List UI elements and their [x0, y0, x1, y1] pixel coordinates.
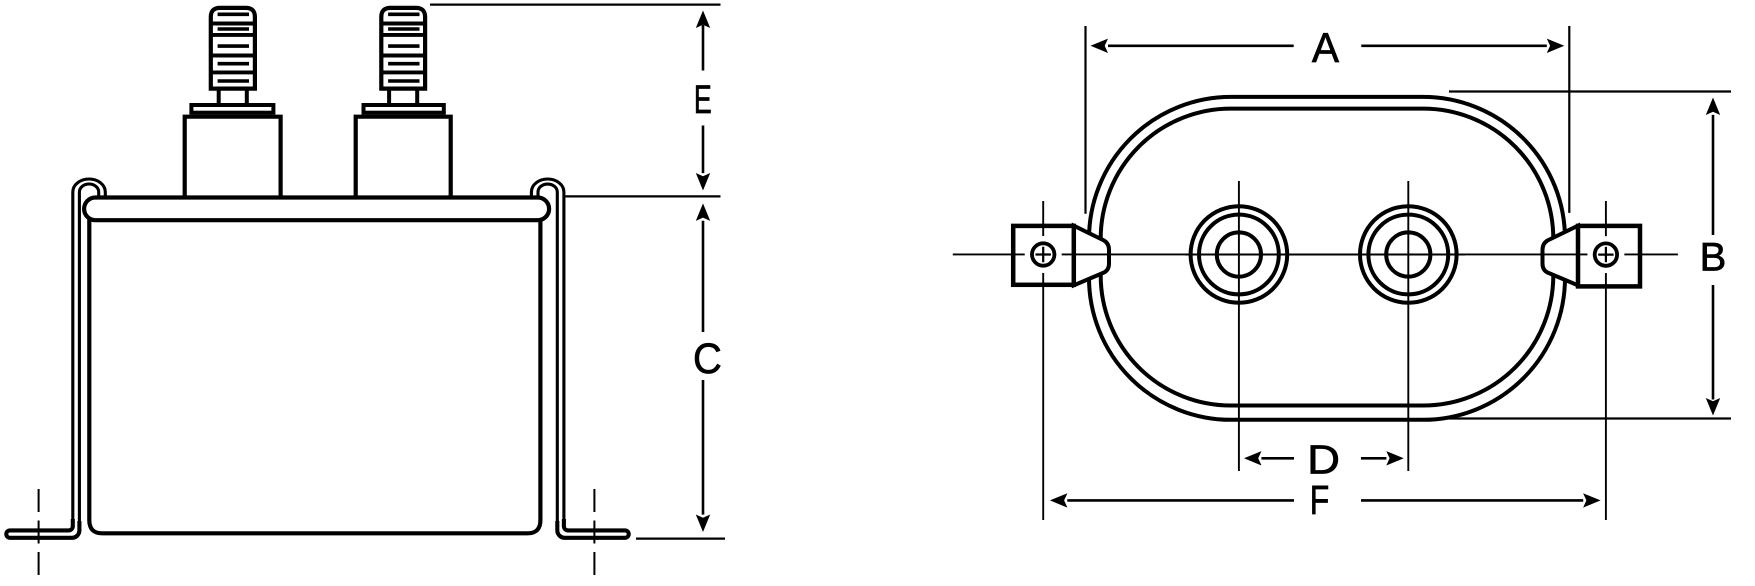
dimension D line [1261, 457, 1386, 460]
terminal flange 1 [191, 105, 273, 113]
extension line from stud top [430, 3, 721, 5]
svg-text:E: E [694, 78, 712, 123]
stud 2 thread dashes [388, 14, 419, 81]
can body [89, 216, 540, 533]
oval case outer outline [1089, 97, 1565, 420]
label C [693, 334, 722, 383]
right mounting strap with foot [531, 179, 564, 524]
left mounting strap with foot [73, 179, 106, 524]
can top rim (rolled lip) [84, 198, 549, 221]
right tab hole vertical centerline (F extension) [1605, 201, 1607, 520]
stud 1 thread divider lines [211, 24, 255, 73]
label E [694, 78, 712, 123]
right mounting tab square [1578, 226, 1640, 287]
dimension C line [702, 221, 705, 515]
svg-text:B: B [1700, 236, 1727, 280]
centerline re-draw across terminals [1185, 254, 1465, 256]
threaded stud 1 [211, 8, 255, 89]
stud 2 thread divider lines [381, 24, 425, 73]
terminal neck 2 [389, 89, 417, 103]
label F [1310, 477, 1330, 523]
dimension E line [702, 25, 705, 173]
dimension B line [1712, 115, 1715, 400]
extension line at can bottom [636, 537, 725, 539]
terminal bushing block 1 [185, 117, 281, 197]
terminal 2 vertical centerline [1407, 181, 1409, 471]
terminal 1 circles [1191, 206, 1288, 303]
left foot dashed centerline [38, 489, 40, 578]
label A [1312, 24, 1340, 71]
terminal 2 circles [1360, 206, 1457, 303]
label B [1700, 236, 1727, 280]
terminal flange 2 [364, 105, 444, 113]
oval case inner outline [1101, 109, 1554, 406]
label D [1307, 438, 1340, 483]
left mounting tab square [1013, 226, 1074, 285]
dimension A extension lines [1086, 26, 1570, 214]
left tab hole [1027, 239, 1059, 271]
right foot dashed centerline [593, 489, 595, 578]
stud 1 thread dashes [218, 14, 249, 81]
left mounting tab trapezoid [1074, 226, 1109, 286]
dimension B extension lines [1449, 92, 1731, 419]
dimension F line [1067, 499, 1583, 502]
threaded stud 2 [381, 8, 425, 89]
svg-text:F: F [1310, 477, 1330, 523]
dimension A line [1108, 44, 1547, 47]
terminal 1 vertical centerline [1238, 181, 1240, 471]
terminal neck 1 [219, 89, 247, 103]
extension line at rim top [566, 195, 721, 197]
left tab hole vertical centerline (F extension) [1042, 201, 1044, 520]
svg-text:A: A [1312, 24, 1340, 71]
horizontal centerline [953, 253, 1678, 255]
svg-text:C: C [693, 334, 722, 383]
terminal bushing block 2 [356, 117, 451, 197]
right mounting tab trapezoid [1543, 226, 1579, 286]
right tab hole [1590, 239, 1622, 271]
